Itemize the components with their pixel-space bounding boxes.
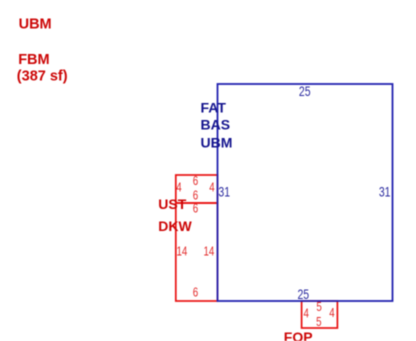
svg-text:14: 14 bbox=[204, 245, 215, 259]
svg-text:FBM: FBM bbox=[18, 52, 49, 68]
svg-text:DKW: DKW bbox=[158, 218, 192, 234]
svg-text:UBM: UBM bbox=[19, 17, 52, 33]
svg-text:31: 31 bbox=[379, 184, 391, 200]
svg-text:4: 4 bbox=[329, 307, 335, 321]
wall outline: DKW box (red, 6 x 14) bbox=[176, 203, 218, 301]
svg-text:UBM: UBM bbox=[201, 135, 233, 151]
svg-text:4: 4 bbox=[303, 307, 309, 321]
svg-text:4: 4 bbox=[176, 181, 182, 195]
svg-text:6: 6 bbox=[193, 175, 198, 189]
svg-text:6: 6 bbox=[193, 189, 198, 203]
wall outline: UST box (red, 6 x 4) bbox=[176, 175, 218, 203]
svg-text:25: 25 bbox=[297, 287, 309, 303]
svg-text:FAT: FAT bbox=[201, 99, 227, 115]
svg-text:BAS: BAS bbox=[201, 117, 231, 133]
wall outline: BAS/FAT/UBM main area (blue rectangle 25 x 31, drawn over red shared edges) bbox=[218, 84, 393, 301]
svg-text:6: 6 bbox=[193, 286, 198, 300]
svg-text:6: 6 bbox=[193, 202, 198, 216]
svg-text:25: 25 bbox=[299, 84, 311, 100]
svg-text:UST: UST bbox=[158, 196, 186, 212]
svg-text:14: 14 bbox=[177, 245, 188, 259]
svg-text:FOP: FOP bbox=[284, 329, 313, 341]
svg-text:31: 31 bbox=[218, 184, 230, 200]
svg-text:5: 5 bbox=[316, 301, 321, 315]
svg-text:5: 5 bbox=[316, 316, 321, 330]
svg-text:4: 4 bbox=[209, 181, 215, 195]
wall outline: FOP box (red, 5 x 4) bbox=[302, 301, 338, 328]
svg-text:(387 sf): (387 sf) bbox=[17, 68, 68, 84]
